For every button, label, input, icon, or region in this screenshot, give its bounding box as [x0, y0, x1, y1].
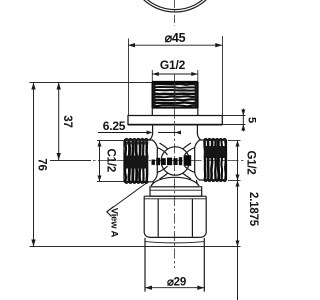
dim C1/2 line: [99, 141, 101, 182]
dim C1/2 ext top: [97, 140, 124, 142]
dim phi45 extension line left: [128, 39, 130, 116]
top-view circle inner arc: [142, 0, 209, 10]
dim 5 ext top: [223, 115, 246, 117]
fillet to left port: [149, 133, 152, 140]
svg-text:76: 76: [36, 158, 48, 170]
svg-text:C1/2: C1/2: [104, 149, 116, 173]
dim 5 ext bottom: [223, 124, 246, 126]
svg-text:6.25: 6.25: [103, 119, 126, 133]
dim 37 line: [58, 83, 60, 161]
dim G1/2 top line: [152, 73, 198, 75]
svg-text:G1/2: G1/2: [160, 58, 186, 72]
central logo: [152, 155, 192, 166]
dim phi45 line: [128, 44, 222, 46]
neck below flange: [153, 125, 198, 135]
horizontal centerline: [61, 160, 245, 162]
dim 5 line: [242, 109, 244, 132]
shoulder dome: [151, 177, 199, 185]
dim phi29 line: [145, 287, 204, 289]
vertical centerline: [174, 0, 176, 26]
body waist below ports: [151, 180, 199, 186]
svg-text:⌀29: ⌀29: [167, 277, 186, 289]
svg-text:37: 37: [61, 115, 73, 127]
right port thread G1/2: [204, 138, 227, 181]
svg-text:View A: View A: [109, 208, 120, 238]
dim 6.25 leader: [98, 132, 181, 134]
dim 76 line: [33, 83, 35, 247]
top male thread G1/2: [152, 82, 198, 108]
svg-text:⌀45: ⌀45: [165, 31, 186, 45]
right ext mid (y=180): [228, 180, 241, 182]
svg-text:5: 5: [246, 117, 258, 123]
view A arrowhead: [107, 207, 114, 217]
packing nut hex: [144, 196, 206, 237]
right ext top (y=140.5): [228, 140, 241, 142]
dim G1/2 + 2.1875 line: [237, 141, 239, 300]
flange phi45: [128, 116, 222, 125]
svg-text:2.1875: 2.1875: [247, 192, 259, 227]
left port thread C1/2: [124, 138, 149, 183]
dim phi45 extension line right: [222, 36, 224, 115]
right port hex section: [195, 140, 204, 180]
extension line bottom (y=246.5): [30, 246, 241, 248]
bottom cylinder phi29: [145, 242, 204, 243]
dim G1/2 top extension ticks: [152, 70, 198, 82]
view A leader: [107, 183, 146, 212]
dim C1/2 ext bottom: [97, 181, 124, 183]
top-view circle outer arc: [141, 0, 209, 12]
body casting X curves: [157, 143, 194, 179]
svg-text:G1/2: G1/2: [245, 150, 257, 174]
circle center tick: [172, 11, 179, 13]
dim 37 ext bottom: [50, 160, 91, 162]
left port hex section: [149, 140, 158, 182]
neck below top thread: [152, 108, 198, 116]
extension line top (y=82): [30, 82, 153, 84]
fillet to right port: [197, 133, 200, 140]
collar: [150, 187, 202, 196]
